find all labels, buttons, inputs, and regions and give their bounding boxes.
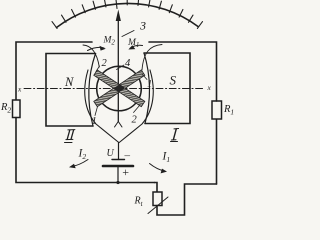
moving frame right curve to apex — [119, 70, 153, 143]
svg-text:I1: I1 — [162, 151, 171, 165]
pointer arrowhead — [116, 10, 121, 22]
current arrow I1 — [150, 164, 165, 172]
svg-text:M1: M1 — [127, 38, 139, 49]
label 3 leader — [122, 31, 134, 37]
coil 2 bar (upper-left to lower-right) — [94, 70, 145, 107]
junction node — [116, 181, 119, 184]
scale arc — [57, 3, 199, 27]
scale ticks — [52, 0, 203, 28]
svg-text:M2: M2 — [103, 36, 116, 47]
magnet pole N (left) outline — [46, 54, 96, 127]
wire Rt to bottom jog — [157, 184, 217, 215]
svg-text:R2: R2 — [0, 102, 11, 115]
Rt diagonal stroke — [148, 197, 168, 214]
svg-text:1: 1 — [92, 116, 97, 127]
current arrow I2 — [72, 160, 89, 167]
right column wire up to R1 — [216, 119, 218, 184]
svg-text:N: N — [64, 75, 74, 89]
svg-text:2: 2 — [102, 58, 108, 69]
wire down to Rt — [155, 183, 158, 193]
svg-text:U: U — [107, 148, 115, 159]
label 1 right leader tick — [143, 75, 148, 80]
svg-text:3: 3 — [139, 19, 146, 33]
svg-text:I2: I2 — [78, 148, 87, 162]
svg-text:x: x — [207, 83, 212, 92]
pole S concave face — [144, 53, 150, 124]
underline numeral II — [65, 142, 73, 144]
torque arrow M2 — [88, 47, 105, 50]
numeral I under S pole (drawn) — [171, 129, 178, 141]
svg-text:R1: R1 — [223, 104, 234, 117]
resistor Rt — [153, 192, 162, 206]
numeral II under N pole (drawn) — [66, 130, 75, 140]
resistor R1 — [212, 101, 222, 119]
battery wire to junction — [117, 166, 119, 183]
svg-text:Rt: Rt — [134, 196, 144, 209]
core circle 4 — [97, 66, 142, 111]
outer circuit: left column wire — [16, 42, 92, 100]
underline numeral I — [171, 141, 178, 143]
label 2 bottom-right leader tick — [134, 106, 140, 113]
horizontal dash-dot axis — [24, 88, 204, 90]
suspension fork below core — [115, 122, 123, 128]
moving frame left curve to apex — [85, 70, 119, 143]
magnet pole S (right) outline — [144, 53, 190, 124]
svg-text:–: – — [124, 150, 131, 162]
battery long plate — [103, 165, 133, 168]
svg-text:4: 4 — [125, 58, 131, 69]
crossing dark patch — [114, 84, 125, 92]
label 2 top leader tick — [96, 66, 100, 72]
resistor R2 — [13, 100, 21, 118]
svg-text:2: 2 — [132, 115, 138, 126]
svg-text:+: + — [122, 165, 130, 179]
pointer 3 (needle) — [117, 20, 119, 122]
svg-text:1: 1 — [147, 79, 152, 90]
lead wire from left top wire into coil 2 — [83, 45, 99, 67]
label 4 leader — [117, 65, 125, 70]
coil 1 bar (lower-left to upper-right) — [94, 70, 145, 107]
label 1 bottom-left leader tick — [95, 107, 98, 116]
lead wire from right top wire into coil 1 — [142, 45, 162, 71]
svg-text:x: x — [17, 84, 22, 93]
battery short plate — [112, 159, 125, 161]
pole N concave face — [89, 54, 96, 127]
battery wire from frame apex — [118, 143, 120, 160]
wire R2 to bottom-left corner and bottom wire — [16, 118, 155, 183]
svg-text:S: S — [170, 73, 177, 88]
wire R1 to top-right corner and top wire — [149, 42, 217, 101]
torque arrow M1 — [130, 45, 143, 48]
